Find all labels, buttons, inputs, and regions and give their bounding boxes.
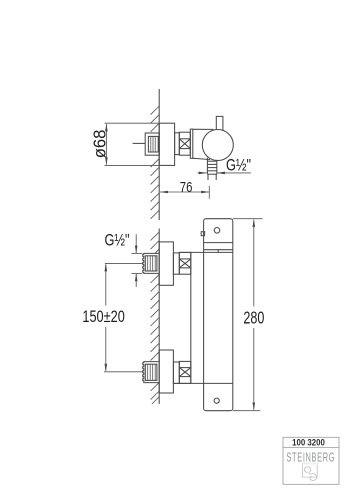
svg-text:G½": G½" [226,156,251,175]
svg-text:76: 76 [180,179,193,196]
top button stub [216,116,223,130]
left clip detail [201,232,204,236]
top mounting hole [214,228,220,234]
supply pipe stub [133,142,146,144]
collar [190,129,193,158]
G half lower arrow lines [135,234,137,253]
76 right extension line [208,186,210,199]
logo box [283,437,339,484]
G half top view dim lines [198,172,207,174]
bottom connector [173,362,179,383]
in-wall fitting box [145,133,159,155]
bottom union X-box [179,361,191,383]
top union X-box [179,252,191,274]
connector [175,133,180,155]
76 dimension line [160,191,209,193]
svg-text:ø68: ø68 [90,130,109,159]
150 arrows [105,263,108,271]
G half top view arrows [199,172,207,175]
dia68 extension lines [105,122,160,124]
svg-text:280: 280 [243,309,264,329]
150 extension lines [105,262,143,264]
logo curl mark [304,467,316,481]
body bar [204,219,233,411]
dia68 arrows [105,124,108,132]
valve body (side) [193,129,214,159]
150 dimension line [105,264,107,305]
top connector [173,253,179,274]
76 arrows [160,191,168,194]
280 arrows [253,219,256,227]
dia68 dimension line [105,124,107,165]
bottom escutcheon [159,350,173,393]
wall line upper segment [158,89,160,404]
svg-text:100 3200: 100 3200 [292,437,325,448]
top escutcheon [159,242,173,285]
vertical connecting line between unions [190,252,192,383]
280 dimension line [253,220,255,307]
body divider lines [173,243,232,384]
DIMENSIONS (thinner strokes) [104,123,263,411]
union nut X-box [179,132,190,155]
svg-text:G½": G½" [105,231,130,250]
control knob circle [202,130,233,161]
wall hatching upper [151,106,160,219]
G half lower arrows [135,246,138,254]
escutcheon (side) [159,123,174,165]
logo outline square [302,465,317,477]
bottom inlet: ribbed wall fitting [143,362,159,383]
arrowheads [105,124,256,411]
wall hatching lower [151,232,160,404]
hose nipple outlet [207,158,216,180]
bottom mounting hole [214,398,219,403]
top inlet: ribbed wall fitting [143,253,159,273]
svg-text:150±20: 150±20 [82,307,124,326]
280 extension lines [233,218,263,220]
svg-text:ARMATUREN: ARMATUREN [302,462,320,465]
dimension texts [82,130,264,328]
